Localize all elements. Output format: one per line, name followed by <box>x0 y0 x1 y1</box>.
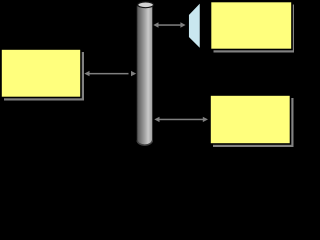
shadow of left box <box>4 52 84 101</box>
shadow of top-right box <box>214 5 296 53</box>
left yellow box <box>1 49 81 98</box>
shadow of bottom-right box <box>213 98 294 147</box>
arrow: cylinder to interface trapezoid (double-headed) <box>153 22 185 27</box>
top-right yellow box <box>211 2 293 50</box>
interface trapezoid (cyan) <box>188 2 200 49</box>
cylinder bottom rim <box>137 141 152 146</box>
bottom-right yellow box <box>210 95 291 144</box>
cylinder (blackboard/bus) body <box>137 6 153 145</box>
cylinder top ellipse <box>138 2 154 8</box>
arrow: cylinder to bottom-right box (double-headed) <box>154 117 208 122</box>
arrow: left box to cylinder (double-headed) <box>84 71 136 76</box>
